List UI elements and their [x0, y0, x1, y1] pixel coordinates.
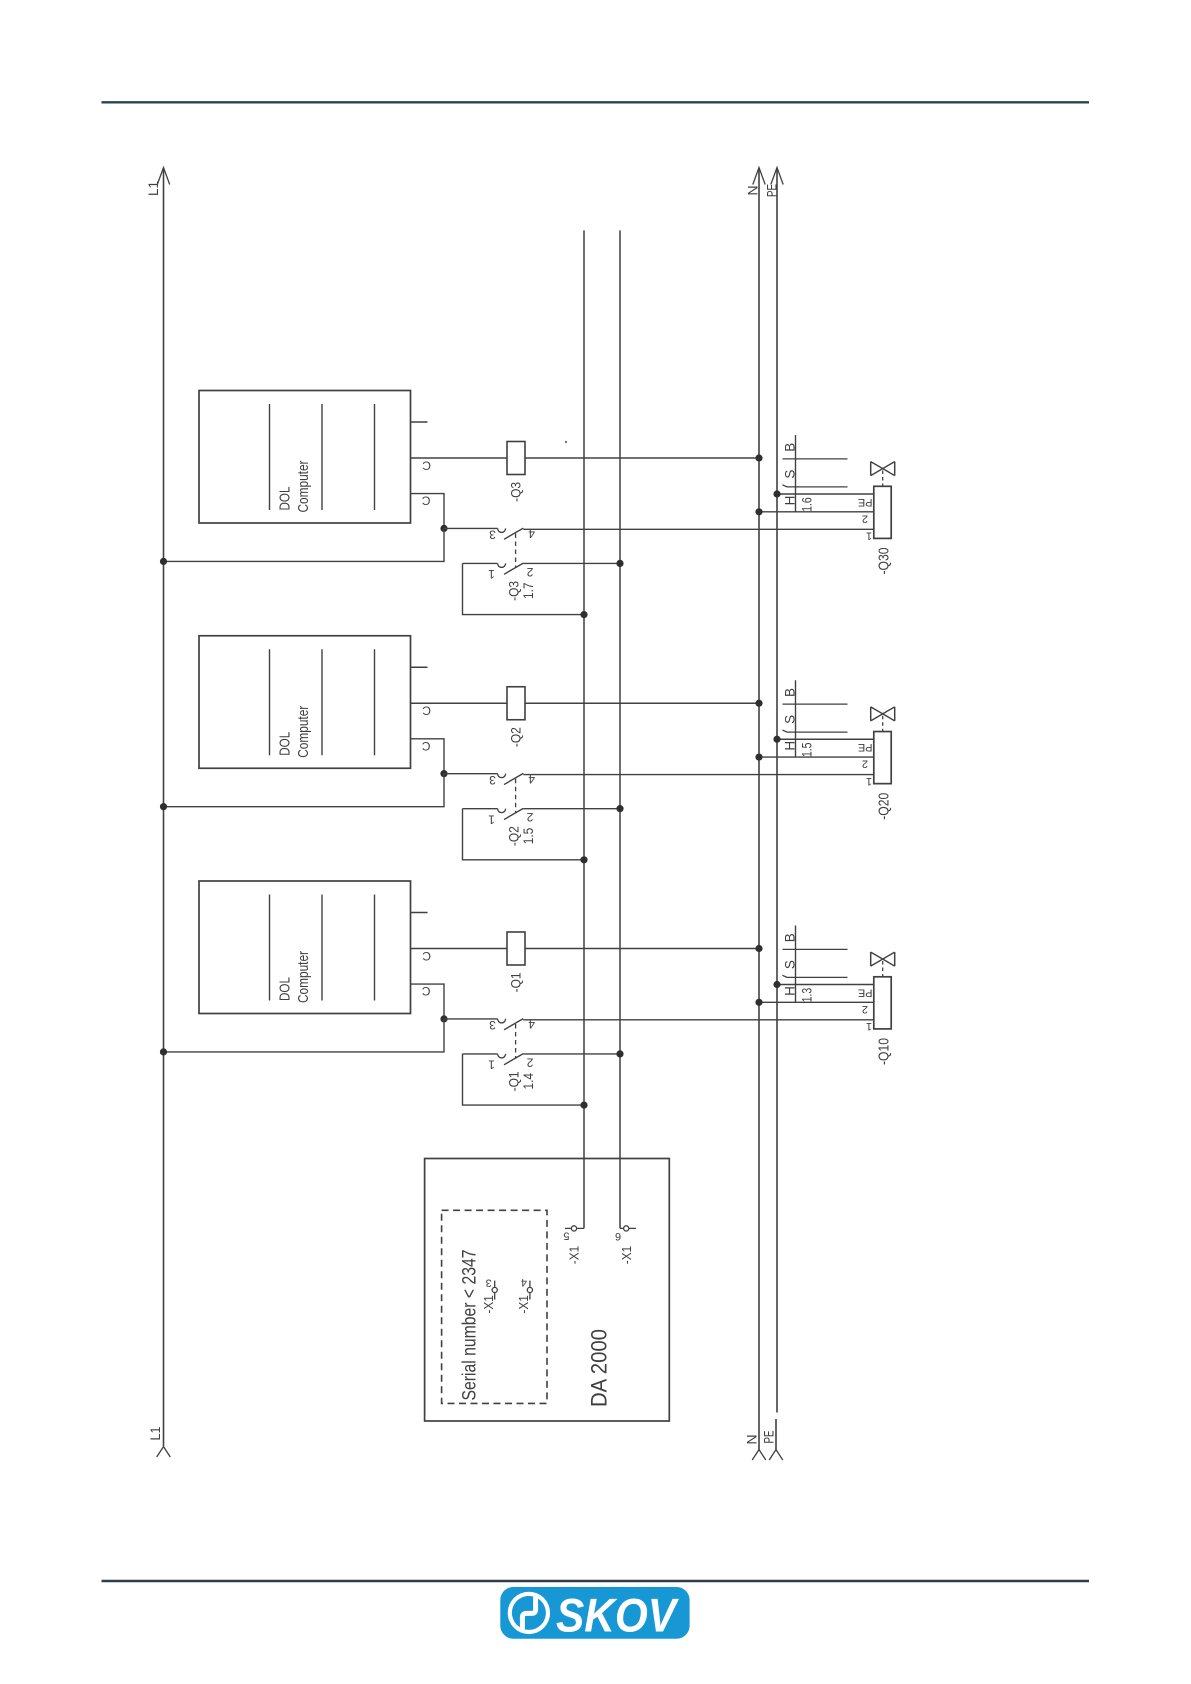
cable line (group Q1)	[795, 926, 797, 1003]
svg-text:1.3: 1.3	[800, 988, 815, 1003]
svg-text:L1: L1	[147, 1426, 163, 1440]
svg-text:1.5: 1.5	[800, 743, 815, 758]
wire DOL pin C lower to junction (group Q1)	[411, 984, 445, 1019]
contact -Q3 3-4 socket	[498, 528, 506, 532]
svg-text:5: 5	[563, 1230, 569, 1242]
svg-text:S: S	[782, 470, 797, 479]
wire coil -Q3 to N	[525, 457, 759, 459]
svg-text:1.5: 1.5	[520, 828, 536, 845]
contact -Q2 3-4 left wire	[444, 773, 498, 775]
wire DOL pin C lower to junction (group Q2)	[411, 739, 445, 774]
svg-text:1: 1	[488, 1058, 495, 1072]
damper valve symbol (group Q2)	[870, 707, 872, 721]
wire L1 feed (group Q2)	[164, 774, 445, 807]
junction dot fan neutral on N (group Q2)	[755, 753, 762, 760]
svg-text:2: 2	[862, 512, 868, 524]
svg-text:Computer: Computer	[295, 706, 312, 758]
svg-text:-X1: -X1	[481, 1295, 496, 1313]
svg-text:S: S	[782, 715, 797, 724]
svg-text:PE: PE	[764, 184, 780, 197]
contact -Q2 1-2 blade	[504, 808, 523, 819]
svg-text:C: C	[422, 494, 431, 508]
contact -Q2 3-4 blade	[504, 773, 523, 784]
wire DOL pin C to coil -Q3 (group Q3)	[411, 457, 508, 459]
contactor coil -Q3	[507, 442, 525, 475]
serial number dashed box	[442, 1210, 547, 1403]
wire contact 1 loop to alarm bus A (group Q2)	[463, 809, 585, 860]
contact -Q3 1-2 left wire	[463, 562, 498, 564]
svg-text:-X1: -X1	[516, 1295, 531, 1313]
svg-text:Computer: Computer	[295, 460, 312, 512]
svg-text:DOL: DOL	[277, 487, 294, 511]
svg-text:B: B	[782, 688, 797, 697]
wire L1 feed (group Q1)	[164, 1019, 445, 1052]
DOL computer box (group Q1)	[199, 881, 411, 1014]
cable core B wire (group Q1)	[783, 948, 848, 950]
svg-text:C: C	[422, 949, 431, 963]
svg-text:-X1: -X1	[619, 1246, 634, 1264]
svg-text:H: H	[782, 496, 797, 506]
DOL computer box (group Q3)	[199, 391, 411, 524]
svg-text:B: B	[782, 443, 797, 452]
DOL computer spare pin stub (group Q3)	[411, 421, 428, 423]
svg-text:H: H	[782, 741, 797, 751]
wire contact 2 to alarm bus B (group Q1)	[523, 1053, 620, 1055]
junction dot coil return on N (group Q2)	[755, 700, 762, 707]
contact -Q3 3-4 left wire	[444, 527, 498, 529]
svg-text:1: 1	[866, 530, 872, 542]
contact -Q1 3-4 socket	[498, 1019, 506, 1023]
contact -Q3 3-4 blade	[504, 528, 523, 539]
svg-text:-Q20: -Q20	[875, 793, 892, 820]
junction dot on alarm bus A (group Q2)	[580, 856, 587, 863]
terminal -X1:3	[494, 1281, 496, 1288]
svg-text:N: N	[744, 1434, 760, 1444]
svg-text:1: 1	[866, 775, 872, 787]
wire DOL pin C lower to junction (group Q3)	[411, 494, 445, 529]
net L1 arrowhead	[157, 168, 169, 185]
svg-text:1: 1	[488, 812, 495, 826]
wire PE to fan -Q30	[777, 493, 874, 495]
junction dot on alarm bus B (group Q2)	[616, 805, 623, 812]
fan motor box -Q20	[874, 732, 891, 784]
fan motor box -Q10	[874, 977, 891, 1029]
svg-text:DA 2000: DA 2000	[587, 1329, 612, 1407]
wire N to fan -Q10	[759, 1001, 874, 1003]
page header rule	[102, 101, 1090, 103]
svg-text:-Q2: -Q2	[508, 727, 524, 747]
cable core S wire (group Q1)	[782, 975, 847, 977]
svg-text:6: 6	[615, 1230, 621, 1242]
svg-text:C: C	[422, 984, 431, 998]
cable core S wire (group Q3)	[782, 485, 847, 487]
contactor coil -Q1	[507, 932, 525, 965]
net N break chevron bottom	[752, 1450, 766, 1460]
damper link dashed (group Q3)	[882, 471, 884, 487]
wire contact 2 to alarm bus B (group Q3)	[523, 562, 620, 564]
svg-text:N: N	[745, 185, 761, 195]
net N rail	[758, 168, 760, 1450]
svg-text:1: 1	[488, 567, 495, 581]
svg-text:4: 4	[521, 1276, 527, 1288]
svg-text:1.6: 1.6	[800, 497, 815, 512]
svg-text:B: B	[782, 933, 797, 942]
mechanical link dashed -Q2	[515, 779, 517, 814]
net L1 break chevron bottom	[157, 1447, 171, 1457]
svg-text:C: C	[422, 458, 431, 472]
cable core S wire (group Q2)	[782, 730, 847, 732]
svg-text:2: 2	[526, 565, 533, 579]
damper link dashed (group Q2)	[882, 716, 884, 732]
contact -Q1 1-2 blade	[504, 1054, 523, 1065]
svg-text:S: S	[782, 960, 797, 969]
junction dot on alarm bus B (group Q3)	[616, 560, 623, 567]
contact -Q1 1-2 left wire	[463, 1053, 498, 1055]
svg-text:1: 1	[866, 1020, 872, 1032]
cable line (group Q2)	[795, 680, 797, 757]
wire contact 4 to fan -Q30 pin 1	[523, 528, 874, 530]
junction dot on L1 (group Q1)	[160, 1048, 167, 1055]
svg-text:-Q3: -Q3	[508, 482, 524, 502]
svg-text:Serial number < 2347: Serial number < 2347	[460, 1250, 481, 1401]
contact -Q1 3-4 blade	[504, 1019, 523, 1030]
net PE break chevron bottom	[769, 1450, 783, 1460]
svg-text:2: 2	[526, 810, 533, 824]
contact -Q2 1-2 left wire	[463, 808, 498, 810]
cable line (group Q3)	[795, 435, 797, 512]
junction dot fan neutral on N (group Q1)	[755, 999, 762, 1006]
DOL computer box partition lines (group Q1)	[269, 895, 271, 1001]
terminal -X1:4	[529, 1281, 531, 1288]
svg-text:3: 3	[489, 528, 496, 542]
contact -Q1 3-4 left wire	[444, 1018, 498, 1020]
DOL computer spare pin stub (group Q1)	[411, 912, 428, 914]
svg-text:3: 3	[489, 773, 496, 787]
damper link dashed (group Q1)	[882, 961, 884, 977]
net L1 rail	[163, 168, 165, 1446]
junction dot on alarm bus A (group Q1)	[580, 1102, 587, 1109]
contact -Q2 3-4 socket	[498, 774, 506, 778]
ink speck artifact	[565, 441, 567, 443]
svg-text:Computer: Computer	[295, 951, 312, 1003]
svg-text:-X1: -X1	[567, 1246, 582, 1264]
junction dot on alarm bus A (group Q3)	[580, 611, 587, 618]
damper valve symbol (group Q3)	[870, 462, 872, 476]
wire DOL pin C to coil -Q2 (group Q2)	[411, 702, 508, 704]
svg-text:3: 3	[489, 1018, 496, 1032]
wire contact 4 to fan -Q10 pin 1	[523, 1019, 874, 1021]
cable core B wire (group Q2)	[783, 703, 848, 705]
svg-text:-Q30: -Q30	[875, 548, 892, 575]
DA 2000 unit box	[425, 1159, 670, 1422]
svg-text:2: 2	[526, 1056, 533, 1070]
terminal -X1:6	[620, 1227, 624, 1229]
svg-text:1.4: 1.4	[520, 1073, 536, 1090]
wire N to fan -Q20	[759, 756, 874, 758]
contact -Q3 1-2 blade	[504, 563, 523, 574]
net PE rail	[776, 168, 778, 1413]
wire coil -Q1 to N	[525, 948, 759, 950]
junction dot on L1 (group Q3)	[160, 558, 167, 565]
cable core B wire (group Q3)	[783, 458, 848, 460]
svg-text:C: C	[422, 704, 431, 718]
damper valve symbol (group Q1)	[870, 952, 872, 966]
svg-text:3: 3	[486, 1276, 492, 1288]
wire contact 2 to alarm bus B (group Q2)	[523, 808, 620, 810]
junction dot coil return on N (group Q1)	[755, 945, 762, 952]
junction dot contact feed (group Q1)	[440, 1015, 447, 1022]
net N arrowhead	[753, 168, 765, 185]
svg-text:-Q10: -Q10	[875, 1038, 892, 1065]
contact -Q1 1-2 socket	[498, 1054, 506, 1058]
wire contact 1 loop to alarm bus A (group Q3)	[463, 563, 585, 614]
net PE rail lower segment	[775, 1419, 777, 1450]
wire N to fan -Q30	[759, 511, 874, 513]
svg-text:C: C	[422, 739, 431, 753]
terminal -X1:5	[565, 1227, 572, 1229]
wire PE to fan -Q20	[777, 738, 874, 740]
junction dot on PE (group Q1)	[773, 981, 780, 988]
wire contact 1 loop to alarm bus A (group Q1)	[463, 1054, 585, 1105]
svg-text:PE: PE	[858, 496, 873, 508]
wire coil -Q2 to N	[525, 702, 759, 704]
wire DOL pin C to coil -Q1 (group Q1)	[411, 948, 508, 950]
svg-text:1.7: 1.7	[520, 582, 536, 599]
wire PE to fan -Q10	[777, 984, 874, 986]
contact -Q3 1-2 socket	[498, 563, 506, 567]
mechanical link dashed -Q3	[515, 534, 517, 569]
junction dot contact feed (group Q2)	[440, 770, 447, 777]
mechanical link dashed -Q1	[515, 1024, 517, 1059]
svg-text:L1: L1	[145, 181, 161, 196]
svg-text:DOL: DOL	[277, 977, 294, 1001]
contact -Q2 1-2 socket	[498, 809, 506, 813]
svg-text:2: 2	[862, 1003, 868, 1015]
svg-text:H: H	[782, 986, 797, 996]
svg-text:-Q1: -Q1	[508, 972, 524, 992]
junction dot coil return on N (group Q3)	[755, 454, 762, 461]
svg-text:SKOV: SKOV	[556, 1589, 679, 1642]
wire L1 feed (group Q3)	[164, 528, 445, 561]
svg-text:PE: PE	[858, 741, 873, 753]
wire contact 4 to fan -Q20 pin 1	[523, 774, 874, 776]
svg-text:2: 2	[862, 758, 868, 770]
junction dot contact feed (group Q3)	[440, 525, 447, 532]
DOL computer box partition lines (group Q2)	[269, 649, 271, 755]
DOL computer box (group Q2)	[199, 636, 411, 769]
svg-text:DOL: DOL	[277, 732, 294, 756]
wire alarm bus B (to -X1:6)	[619, 230, 621, 1228]
SKOV logo	[500, 1587, 689, 1642]
DOL computer box partition lines (group Q3)	[269, 404, 271, 510]
fan motor box -Q30	[874, 486, 891, 538]
DOL computer spare pin stub (group Q2)	[411, 666, 428, 668]
svg-text:PE: PE	[858, 986, 873, 998]
junction dot on PE (group Q3)	[773, 490, 780, 497]
wire alarm bus A (to -X1:5)	[583, 230, 585, 1228]
page footer rule	[102, 1580, 1090, 1582]
net PE arrowhead	[771, 168, 783, 185]
junction dot on L1 (group Q2)	[160, 803, 167, 810]
junction dot on PE (group Q2)	[773, 736, 780, 743]
junction dot fan neutral on N (group Q3)	[755, 508, 762, 515]
svg-text:PE: PE	[761, 1431, 777, 1444]
junction dot on alarm bus B (group Q1)	[616, 1050, 623, 1057]
contactor coil -Q2	[507, 687, 525, 720]
